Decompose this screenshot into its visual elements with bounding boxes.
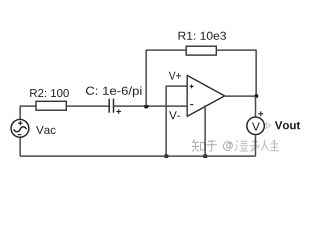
watermark char man: [235, 141, 248, 152]
voltmeter V1: [247, 117, 265, 135]
label V- node: [169, 111, 180, 119]
capacitor plus polarity mark: [116, 109, 121, 114]
node supply pin on rail: [203, 155, 207, 158]
wire Vac bottom to rail: [19, 137, 21, 156]
resistor R1: [186, 46, 216, 55]
wire non-inverting input to ground rail: [166, 86, 187, 156]
watermark char bu: [250, 139, 260, 151]
wire output down to voltmeter: [255, 96, 257, 117]
watermark char hu: [207, 141, 218, 152]
label Vout: [275, 121, 300, 129]
source Vac: [11, 119, 29, 137]
source plus mark: [18, 121, 22, 125]
wire R2 to C: [66, 105, 109, 107]
wire Vac top to R2: [20, 106, 36, 119]
voltmeter plus polarity mark: [258, 111, 263, 116]
label V+ node: [169, 72, 181, 80]
source sine wave: [14, 127, 27, 132]
label Vac: [36, 126, 56, 134]
wire C to op-amp inverting input: [114, 105, 188, 107]
node + input ground tap: [164, 155, 168, 158]
voltmeter V letter: [252, 122, 260, 130]
label R1 value: [178, 32, 225, 40]
label C value: [86, 86, 141, 97]
wire op-amp output: [225, 95, 257, 97]
wire feedback riser to R1: [146, 50, 186, 106]
watermark char ren: [261, 140, 268, 151]
capacitor C: [109, 99, 113, 113]
watermark char sheng: [270, 140, 279, 151]
op-amp minus input mark: [190, 104, 193, 106]
wire voltmeter to ground rail: [255, 135, 257, 157]
watermark char zhi: [192, 140, 205, 152]
op-amp plus input mark: [190, 85, 194, 89]
label R2 value: [30, 89, 69, 97]
op-amp U1: [187, 75, 224, 116]
source minus mark: [18, 134, 22, 136]
voltmeter output arrow: [266, 123, 270, 129]
watermark char at: [223, 142, 232, 151]
op-amp negative supply pin: [204, 105, 206, 156]
node output junction: [255, 94, 259, 97]
resistor R2: [36, 101, 66, 110]
node feedback tap junction: [144, 105, 148, 108]
watermark zhihu text: [192, 140, 232, 152]
wire ground rail: [20, 155, 255, 157]
wire R1 to output node: [216, 50, 256, 96]
